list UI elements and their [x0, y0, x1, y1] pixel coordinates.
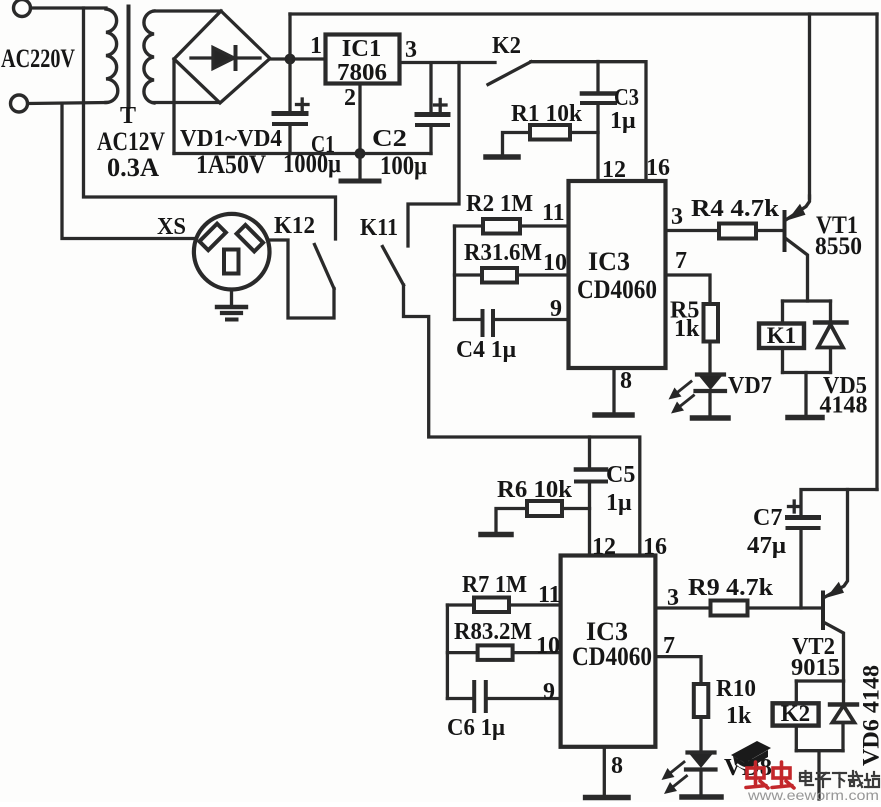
- wire C5 bottom to pin12: [588, 482, 591, 556]
- wire R1 left lead: [503, 133, 531, 155]
- svg-text:1k: 1k: [674, 316, 700, 342]
- resistor R2: [483, 219, 520, 234]
- wire pin11 line lower: [509, 603, 561, 606]
- transistor VT2 emitter: [825, 490, 848, 598]
- resistor R1: [530, 125, 570, 140]
- VD7 emission arrows: [674, 382, 692, 396]
- wire secondary top to bridge: [154, 9, 221, 12]
- svg-text:VD6 4148: VD6 4148: [859, 665, 881, 766]
- wire R6 left lead: [496, 509, 527, 533]
- wire bottom terminal to transformer primary: [29, 103, 107, 104]
- svg-text:R10: R10: [716, 676, 756, 702]
- wire C3 bottom to pin12: [596, 103, 599, 181]
- svg-text:R31.6M: R31.6M: [464, 240, 542, 266]
- wire XS right prong to K12: [270, 240, 335, 318]
- resistor R10: [694, 684, 709, 717]
- ground below pin8 lower: [586, 795, 628, 801]
- transformer T primary winding: [106, 9, 118, 102]
- capacitor C3: [582, 91, 615, 96]
- svg-text:11: 11: [538, 582, 561, 608]
- svg-text:IC3: IC3: [588, 247, 630, 276]
- svg-text:0.3A: 0.3A: [107, 153, 159, 182]
- LED VD7: [697, 372, 724, 376]
- wire C2 top lead: [429, 63, 432, 113]
- svg-text:1A50V: 1A50V: [196, 150, 266, 179]
- transformer T secondary winding: [144, 11, 154, 103]
- wire oscillator left bus lower: [446, 605, 449, 699]
- svg-text:C4 1μ: C4 1μ: [456, 337, 516, 363]
- wire pin7 line lower to R10: [655, 657, 701, 684]
- svg-text:7: 7: [663, 633, 675, 659]
- svg-text:9015: 9015: [791, 655, 840, 681]
- svg-text:7806: 7806: [337, 59, 387, 86]
- svg-text:1: 1: [310, 33, 322, 59]
- wire oscillator left bus: [453, 226, 456, 320]
- svg-text:K12: K12: [274, 213, 315, 239]
- wire pin9 line: [493, 318, 569, 321]
- svg-text:100μ: 100μ: [380, 151, 427, 180]
- bridge internal diode: [191, 56, 260, 59]
- wire pin10 line: [517, 273, 569, 276]
- capacitor C1: [274, 111, 306, 116]
- resistor R5: [704, 304, 719, 342]
- IC lower IC3 CD4060 box: [561, 556, 656, 747]
- svg-text:16: 16: [646, 155, 670, 181]
- svg-text:C6 1μ: C6 1μ: [447, 715, 505, 741]
- svg-text:R9 4.7k: R9 4.7k: [688, 575, 774, 601]
- svg-text:12: 12: [592, 534, 616, 560]
- wire right-edge rail drop: [875, 14, 878, 490]
- wire R4 to VT1 base: [756, 229, 783, 232]
- svg-text:K2: K2: [492, 33, 521, 59]
- wire K1 VD5 top bracket: [783, 299, 831, 302]
- watermark site name glyphs: [800, 771, 879, 787]
- svg-text:AC220V: AC220V: [1, 44, 75, 73]
- svg-text:C2: C2: [372, 126, 407, 152]
- resistor R4: [719, 224, 756, 239]
- bridge rectifier VD1~VD4 diamond: [174, 11, 270, 103]
- svg-text:VD7: VD7: [728, 373, 772, 399]
- svg-text:VD1~VD4: VD1~VD4: [180, 126, 282, 152]
- wire pin8 drop lower IC: [603, 747, 606, 795]
- wire C6 left lead: [447, 697, 474, 700]
- wire K1 VD5 bottom bracket: [783, 371, 831, 374]
- capacitor C7: [788, 515, 819, 520]
- ground below IC1 pin2: [358, 154, 361, 181]
- wire C1 bottom lead: [288, 124, 291, 154]
- transistor VT1 collector: [787, 239, 808, 301]
- ground below R6: [481, 532, 511, 538]
- wire K11 feed: drop from output line, jog left: [408, 63, 459, 247]
- svg-text:1k: 1k: [726, 703, 752, 729]
- wire C7 bottom lead: [799, 528, 802, 608]
- svg-text:8550: 8550: [815, 233, 862, 260]
- IC U-upper IC3 CD4060 box: [569, 181, 666, 368]
- wire riser from junction to top rail: [288, 14, 291, 59]
- terminal top AC input: [14, 0, 31, 17]
- wire bridge output to IC1: [270, 57, 325, 60]
- svg-text:3: 3: [405, 37, 417, 63]
- wire K11 output to lower IC pin16: [404, 285, 640, 556]
- wire secondary bottom to bridge: [154, 101, 219, 104]
- relay coil K2 box: [773, 703, 819, 725]
- svg-text:8: 8: [620, 368, 632, 394]
- C2 plus sign: [435, 103, 447, 106]
- svg-text:11: 11: [542, 200, 565, 226]
- svg-text:R4 4.7k: R4 4.7k: [691, 196, 780, 222]
- wire C7 top feed from right rail: [801, 490, 877, 517]
- svg-text:9: 9: [550, 296, 562, 322]
- resistor R9: [711, 601, 748, 616]
- voltage regulator IC1 7806 box: [326, 35, 400, 84]
- node junction dot at bridge output: [285, 54, 296, 65]
- ground below K1: [804, 373, 807, 416]
- wire R3 left lead: [455, 273, 483, 276]
- wire VT1 emitter drop from top rail: [808, 14, 811, 198]
- resistor R8: [478, 645, 513, 660]
- svg-text:1μ: 1μ: [606, 490, 632, 516]
- wire K2 branch leads: [795, 681, 798, 703]
- wire pin7 line: [666, 275, 711, 304]
- XS center prong: [224, 250, 239, 274]
- svg-text:4148: 4148: [820, 393, 868, 419]
- ground below pin8 upper: [595, 412, 632, 418]
- wire pin10 line lower: [513, 651, 561, 654]
- wire mains live drop and lower rail to K12: [84, 8, 336, 239]
- VD8 emission arrows: [667, 762, 685, 776]
- svg-text:R6 10k: R6 10k: [497, 477, 573, 503]
- svg-text:K1: K1: [767, 323, 796, 348]
- wire IC1 pin2 drop: [358, 84, 361, 154]
- socket XS outer circle: [194, 214, 270, 290]
- svg-text:K11: K11: [360, 215, 398, 241]
- transistor VT1 base bar: [783, 210, 787, 252]
- resistor R3: [482, 268, 517, 283]
- wire top supply rail: [290, 12, 877, 15]
- wire R10 to VD8: [699, 717, 702, 752]
- watermark graduation cap logo: [731, 741, 771, 763]
- capacitor C6: [472, 682, 476, 711]
- ground below XS: [230, 290, 233, 306]
- C1 plus sign: [297, 103, 309, 106]
- ground below VD7: [693, 415, 729, 421]
- switch K2 blade: [488, 62, 531, 85]
- wire pin11 line: [520, 224, 569, 227]
- wire R8 left lead: [447, 651, 477, 654]
- wire R1 right lead: [570, 131, 598, 134]
- svg-text:1μ: 1μ: [610, 108, 636, 134]
- svg-text:3: 3: [667, 585, 679, 611]
- LED VD8: [688, 750, 715, 754]
- wire drop to bottom edge: [817, 751, 820, 799]
- svg-text:R83.2M: R83.2M: [454, 619, 532, 645]
- wire R9 to VT2 base: [748, 606, 822, 609]
- switch K11 blade: [383, 247, 404, 286]
- svg-text:www.eeworm.com: www.eeworm.com: [747, 788, 879, 802]
- wire pin3 line lower: [655, 606, 710, 609]
- svg-text:CD4060: CD4060: [572, 642, 652, 671]
- wire R2 left lead: [455, 224, 484, 227]
- wire bridge left corner drop to ground rail: [172, 59, 175, 154]
- svg-text:C7: C7: [753, 505, 782, 531]
- wire K2 to upper IC pin16: [531, 62, 646, 181]
- svg-text:R1 10k: R1 10k: [511, 101, 583, 127]
- wire R6 right lead: [562, 507, 590, 510]
- wire R7 left lead: [447, 603, 474, 606]
- ground below R1: [486, 154, 518, 160]
- C7 plus sign: [789, 505, 801, 508]
- svg-text:AC12V: AC12V: [97, 127, 165, 156]
- wire IC1 output line: [400, 61, 496, 64]
- transistor VT1 emitter: [787, 196, 810, 220]
- wire bottom terminal drop to XS: [62, 104, 194, 239]
- terminal bottom AC input: [11, 95, 28, 112]
- svg-text:R7 1M: R7 1M: [462, 572, 527, 598]
- switch K12 blade: [315, 245, 335, 289]
- svg-text:XS: XS: [157, 214, 186, 240]
- svg-text:12: 12: [602, 157, 626, 183]
- svg-text:8: 8: [611, 753, 623, 779]
- XS right prong: [237, 225, 264, 252]
- svg-text:CD4060: CD4060: [577, 275, 657, 304]
- wire pin3 line: [666, 229, 720, 232]
- wire C3 top lead: [596, 62, 599, 93]
- wire ground rail: [174, 152, 431, 155]
- wire R5 to VD7: [708, 342, 711, 375]
- relay coil K1 box: [759, 324, 804, 349]
- wire C1 top lead: [288, 59, 291, 112]
- diode VD5: [829, 301, 832, 323]
- svg-text:10: 10: [536, 633, 560, 659]
- svg-text:3: 3: [671, 204, 683, 230]
- wire K2 VD6 top bracket: [796, 679, 843, 682]
- wire pin8 drop upper IC: [612, 368, 615, 412]
- capacitor C4: [481, 311, 485, 335]
- wire C4 left lead: [455, 318, 483, 321]
- svg-text:1000μ: 1000μ: [283, 149, 341, 178]
- XS left prong: [199, 224, 226, 251]
- capacitor C5: [576, 467, 606, 472]
- svg-text:R2 1M: R2 1M: [466, 191, 533, 217]
- ground below VD8: [682, 794, 721, 800]
- transformer core: [127, 7, 131, 108]
- svg-text:7: 7: [675, 248, 687, 274]
- svg-text:K2: K2: [781, 701, 810, 726]
- transistor VT2 base bar: [821, 591, 825, 631]
- transistor VT2 collector: [825, 623, 844, 681]
- diode VD6: [830, 702, 857, 706]
- node junction dot at ground rail: [355, 148, 366, 159]
- resistor R7: [474, 598, 509, 613]
- svg-text:47μ: 47μ: [747, 533, 786, 559]
- svg-text:2: 2: [344, 85, 356, 111]
- wire pin9 line lower: [486, 697, 561, 700]
- svg-text:9: 9: [543, 679, 555, 705]
- wire C5 top lead: [588, 437, 591, 468]
- watermark chongchong red character 2: [772, 762, 794, 788]
- capacitor C2: [417, 112, 448, 117]
- wire top terminal to transformer primary: [31, 6, 107, 9]
- svg-text:IC1: IC1: [342, 35, 381, 62]
- resistor R6: [527, 501, 562, 516]
- wire K1 branch leads: [781, 301, 784, 324]
- wire C2 bottom lead: [429, 125, 432, 154]
- watermark chongchong red character 1: [746, 762, 768, 788]
- svg-text:C5: C5: [606, 462, 635, 488]
- wire K2 VD6 bottom bracket: [796, 749, 843, 752]
- svg-text:T: T: [120, 103, 136, 129]
- svg-text:16: 16: [643, 534, 667, 560]
- svg-text:10: 10: [543, 250, 567, 276]
